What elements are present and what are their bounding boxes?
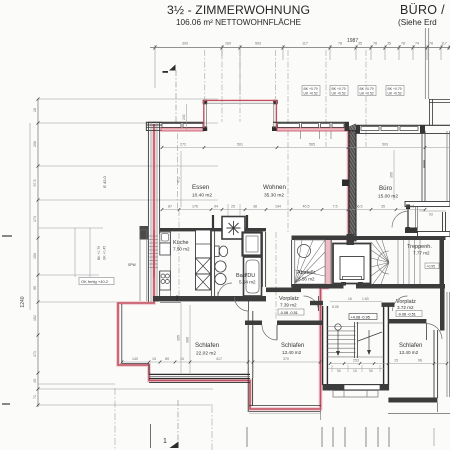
- stairwell bottom wall: [323, 384, 390, 391]
- entry door arc right unit: [393, 296, 408, 311]
- elevator pink wall fill: [325, 240, 332, 287]
- svg-text:15: 15: [152, 357, 156, 361]
- svg-text:SPW: SPW: [128, 263, 137, 267]
- svg-text:1.83: 1.83: [362, 297, 369, 301]
- vorplatz inner lines: [160, 301, 181, 303]
- kitchen tall cabinets: [196, 230, 211, 258]
- kitchen-bath divider wall: [210, 231, 212, 296]
- step wall: [247, 378, 249, 412]
- svg-text:35: 35: [358, 42, 362, 46]
- svg-text:35: 35: [381, 205, 385, 209]
- svg-text:Wohnen: Wohnen: [263, 184, 286, 191]
- kitchen bottom wall: [153, 296, 266, 301]
- elevator door: [341, 282, 346, 286]
- vertical dim x305 buero: [393, 150, 395, 200]
- svg-text:40.5: 40.5: [303, 205, 310, 209]
- left wall corner block: [140, 226, 149, 240]
- svg-text:206: 206: [33, 141, 37, 147]
- vertical dim x190 schlafen: [189, 305, 191, 373]
- svg-text:56.5: 56.5: [356, 205, 363, 209]
- left dimension rays: [38, 98, 218, 100]
- svg-text:240: 240: [182, 114, 186, 120]
- kitchen sink unit: [160, 232, 171, 243]
- svg-text:176: 176: [192, 205, 198, 209]
- svg-text:565: 565: [309, 143, 315, 147]
- svg-text:BK +0.79: BK +0.79: [388, 87, 402, 91]
- divider wall schlafen: [247, 311, 249, 378]
- svg-text:78: 78: [401, 42, 405, 46]
- svg-text:302.5: 302.5: [406, 205, 415, 209]
- svg-text:97.5: 97.5: [33, 180, 37, 187]
- dimension drop lines: [154, 48, 156, 89]
- left wall window sill hatch: [149, 235, 158, 237]
- schlafen1340 wall top: [245, 321, 262, 326]
- north arrow bottom: [170, 442, 179, 449]
- svg-text:1240: 1240: [20, 296, 26, 307]
- svg-text:Vorplatz: Vorplatz: [279, 296, 299, 302]
- svg-text:38: 38: [253, 205, 257, 209]
- section marker top: [169, 65, 176, 71]
- svg-text:253: 253: [353, 359, 359, 363]
- bottom dashed refs: [114, 388, 116, 450]
- right schlafen door arc: [426, 324, 428, 341]
- svg-text:45: 45: [33, 379, 37, 383]
- svg-text:503: 503: [255, 42, 261, 46]
- svg-text:503: 503: [382, 143, 388, 147]
- svg-text:Schlafen: Schlafen: [281, 343, 304, 349]
- svg-text:BK +0.79: BK +0.79: [360, 87, 374, 91]
- left outer skin lines: [139, 230, 141, 301]
- left wall outer lines: [147, 122, 149, 302]
- abstellraum walls: [292, 236, 357, 241]
- stair up arrow: [335, 324, 341, 330]
- abstellraum winder stair: [295, 240, 325, 284]
- svg-text:-0.08 -0.51: -0.08 -0.51: [398, 313, 416, 317]
- neighbour edge above: [424, 28, 426, 99]
- bay outline red: [204, 99, 277, 101]
- kitchen counter line: [170, 231, 172, 296]
- svg-text:89: 89: [165, 357, 169, 361]
- bath right wall: [261, 232, 263, 287]
- right schlafen right wall: [433, 330, 435, 398]
- svg-text:169: 169: [225, 42, 231, 46]
- wash basins: [215, 261, 226, 272]
- right building edge top: [428, 99, 430, 125]
- svg-text:150: 150: [33, 253, 37, 259]
- svg-text:7.50 m2: 7.50 m2: [173, 247, 190, 252]
- svg-text:78: 78: [338, 42, 342, 46]
- shower: [243, 233, 262, 256]
- svg-text:152: 152: [33, 315, 37, 321]
- svg-text:3.72 m2: 3.72 m2: [397, 305, 414, 310]
- svg-text:UK +0.52: UK +0.52: [332, 92, 346, 96]
- svg-text:194: 194: [275, 205, 281, 209]
- svg-text:7.77 m2: 7.77 m2: [413, 251, 430, 256]
- stair level box: [349, 314, 377, 320]
- dim line y362 right: [330, 363, 447, 365]
- svg-text:OK fertig +40.2: OK fertig +40.2: [81, 279, 109, 284]
- svg-text:10.40 m2: 10.40 m2: [192, 193, 212, 199]
- svg-text:15.00 m2: 15.00 m2: [378, 194, 398, 200]
- radiator left: [310, 301, 323, 305]
- svg-text:22.02 m2: 22.02 m2: [196, 351, 216, 357]
- svg-text:Schlafen: Schlafen: [399, 343, 422, 349]
- reference lines bay corners: [204, 50, 206, 99]
- svg-text:BÜRO /: BÜRO /: [400, 3, 445, 17]
- treppenhaus bottom wall: [356, 284, 445, 289]
- red restroke left wall: [153, 230, 155, 278]
- kitchen top wall: [160, 228, 223, 231]
- buero bottom wall: [356, 236, 396, 240]
- svg-text:95: 95: [33, 286, 37, 290]
- svg-text:13.40 m2: 13.40 m2: [399, 350, 419, 355]
- svg-text:E 42.0: E 42.0: [102, 175, 107, 187]
- treppenhaus right wall: [440, 236, 445, 289]
- entry door arc left unit: [304, 296, 319, 311]
- svg-text:8.05: 8.05: [332, 305, 339, 309]
- svg-text:1987: 1987: [347, 38, 358, 44]
- svg-text:87: 87: [168, 205, 172, 209]
- balcony edge left: [121, 304, 123, 364]
- schlafen22 bottom wall: [149, 373, 250, 375]
- pink band left: [161, 128, 204, 131]
- stairwell right wall: [383, 306, 385, 385]
- svg-text:171: 171: [33, 351, 37, 357]
- svg-text:16: 16: [348, 297, 352, 301]
- svg-text:501: 501: [237, 143, 243, 147]
- level label boxes: [302, 86, 320, 96]
- shaft dim ticks: [227, 204, 229, 216]
- corridor wall below bath: [266, 288, 301, 293]
- svg-text:7.39 m2: 7.39 m2: [280, 303, 297, 308]
- bath door arc: [217, 292, 219, 296]
- svg-text:370: 370: [283, 357, 289, 361]
- treppenhaus walls: [371, 236, 446, 240]
- party wall niche block: [342, 180, 349, 187]
- svg-text:7.5: 7.5: [333, 205, 338, 209]
- svg-text:Bad/DU: Bad/DU: [236, 273, 255, 279]
- svg-text:Büro: Büro: [379, 185, 393, 192]
- svg-text:15: 15: [353, 369, 357, 373]
- svg-text:UK +0.52: UK +0.52: [360, 92, 374, 96]
- svg-text:Abstellr.: Abstellr.: [297, 270, 317, 276]
- boxed label OK: [79, 278, 114, 285]
- bay corner dots: [203, 100, 208, 105]
- right edge wall upper: [440, 289, 445, 331]
- treppenhaus winder: [371, 240, 420, 284]
- windows wohnen: [278, 124, 300, 128]
- buero right dim ticks: [423, 160, 425, 168]
- svg-text:117: 117: [441, 42, 447, 46]
- top wall right segment 1: [273, 121, 349, 123]
- top wall left segment: [148, 121, 204, 123]
- svg-text:BK +0.79: BK +0.79: [97, 246, 101, 260]
- svg-text:272: 272: [180, 143, 186, 147]
- far right edge lines: [446, 131, 448, 202]
- svg-text:90: 90: [369, 369, 373, 373]
- shaft side stubs: [212, 215, 214, 228]
- svg-text:Schlafen: Schlafen: [195, 342, 220, 349]
- vertical dim x181: [180, 151, 182, 207]
- svg-text:93: 93: [429, 213, 433, 217]
- svg-text:28: 28: [33, 108, 37, 112]
- dim line y147: [162, 147, 450, 149]
- svg-text:+4.08 -0.95: +4.08 -0.95: [351, 315, 370, 319]
- svg-text:78: 78: [373, 42, 377, 46]
- svg-text:71: 71: [33, 395, 37, 399]
- svg-text:74: 74: [415, 42, 419, 46]
- svg-text:117: 117: [302, 42, 308, 46]
- svg-text:-0.08 -0.51: -0.08 -0.51: [280, 311, 298, 315]
- stairwell left wall: [322, 306, 324, 385]
- svg-text:UK +0.52: UK +0.52: [304, 92, 318, 96]
- reference lines vertical: [177, 122, 179, 210]
- svg-text:UK +0.45: UK +0.45: [103, 246, 107, 260]
- pink band right: [277, 128, 349, 131]
- svg-text:417: 417: [216, 357, 222, 361]
- svg-text:+0.95: +0.95: [427, 265, 436, 269]
- kitchen stove: [160, 271, 171, 290]
- elevator top link: [347, 234, 355, 245]
- svg-text:3½ - ZIMMERWOHNUNG: 3½ - ZIMMERWOHNUNG: [167, 3, 310, 17]
- svg-text:35: 35: [387, 42, 391, 46]
- svg-text:5.64 m2: 5.64 m2: [239, 280, 256, 285]
- svg-text:173: 173: [33, 216, 37, 222]
- svg-text:472: 472: [177, 177, 181, 183]
- bottom balcony ticks: [150, 424, 152, 448]
- elevator shaft: [333, 244, 371, 284]
- svg-text:Treppenh.: Treppenh.: [407, 244, 432, 250]
- svg-text:90: 90: [337, 369, 341, 373]
- svg-text:(Siehe Erd: (Siehe Erd: [398, 18, 437, 27]
- left dimension vertical line: [37, 99, 39, 407]
- toilet: [215, 246, 220, 257]
- svg-text:Küche: Küche: [173, 240, 189, 246]
- schlafen1340 bottom wall: [249, 405, 321, 407]
- svg-text:368: 368: [186, 337, 190, 343]
- svg-text:BK +0.79: BK +0.79: [304, 87, 318, 91]
- svg-text:3.56 m2: 3.56 m2: [298, 277, 315, 282]
- svg-text:BK +0.79: BK +0.79: [332, 87, 346, 91]
- radiator right: [382, 303, 395, 307]
- dim line y209: [162, 209, 425, 211]
- svg-text:395: 395: [177, 335, 181, 341]
- schlafen dim vline: [180, 303, 182, 373]
- top wall right segment 2 (buero): [356, 124, 450, 126]
- buero right wall: [421, 131, 423, 206]
- entry porch below stairwell: [333, 391, 378, 398]
- dim line y362 schlafen22: [122, 361, 320, 363]
- svg-text:25: 25: [231, 205, 235, 209]
- bottom right short walls: [437, 403, 439, 413]
- wall right of shaft: [245, 228, 266, 231]
- svg-text:96: 96: [418, 359, 422, 363]
- stair lower dim rows: [328, 368, 384, 370]
- main stair treads: [327, 323, 383, 357]
- wall tick marks below: [300, 131, 302, 139]
- bathtub: [244, 257, 262, 296]
- svg-text:Essen: Essen: [192, 184, 210, 191]
- svg-text:35.30 m2: 35.30 m2: [264, 193, 284, 199]
- right schlafen bottom wall: [388, 398, 437, 403]
- svg-text:140: 140: [132, 357, 138, 361]
- chimney shaft: [222, 217, 245, 240]
- right unit wall below vorplatz: [388, 319, 426, 324]
- windows buero: [361, 127, 379, 131]
- svg-text:13.40 m2: 13.40 m2: [282, 350, 302, 355]
- svg-text:94: 94: [214, 205, 218, 209]
- apartment red boundary glow: [118, 124, 349, 409]
- schlafen1340 door arc: [276, 325, 278, 340]
- top dimension line: [150, 47, 450, 49]
- svg-text:1: 1: [163, 438, 167, 445]
- svg-text:106.06 m² NETTOWOHNFLÄCHE: 106.06 m² NETTOWOHNFLÄCHE: [176, 17, 301, 27]
- party wall hatched: [349, 131, 356, 241]
- svg-text:393: 393: [182, 42, 188, 46]
- abstell bottom wall: [292, 284, 344, 289]
- apartment red boundary: [118, 124, 349, 409]
- svg-text:UK +0.52: UK +0.52: [388, 92, 402, 96]
- schlafen22 door arc: [248, 297, 250, 311]
- svg-text:10: 10: [180, 357, 184, 361]
- niche walls right: [442, 212, 444, 236]
- stair down arrow: [368, 330, 370, 352]
- buero door: [405, 202, 450, 207]
- svg-text:15: 15: [394, 359, 398, 363]
- window top-left: [162, 124, 181, 128]
- svg-text:395: 395: [390, 172, 394, 178]
- bay offset dim: [186, 104, 188, 131]
- svg-text:78: 78: [429, 42, 433, 46]
